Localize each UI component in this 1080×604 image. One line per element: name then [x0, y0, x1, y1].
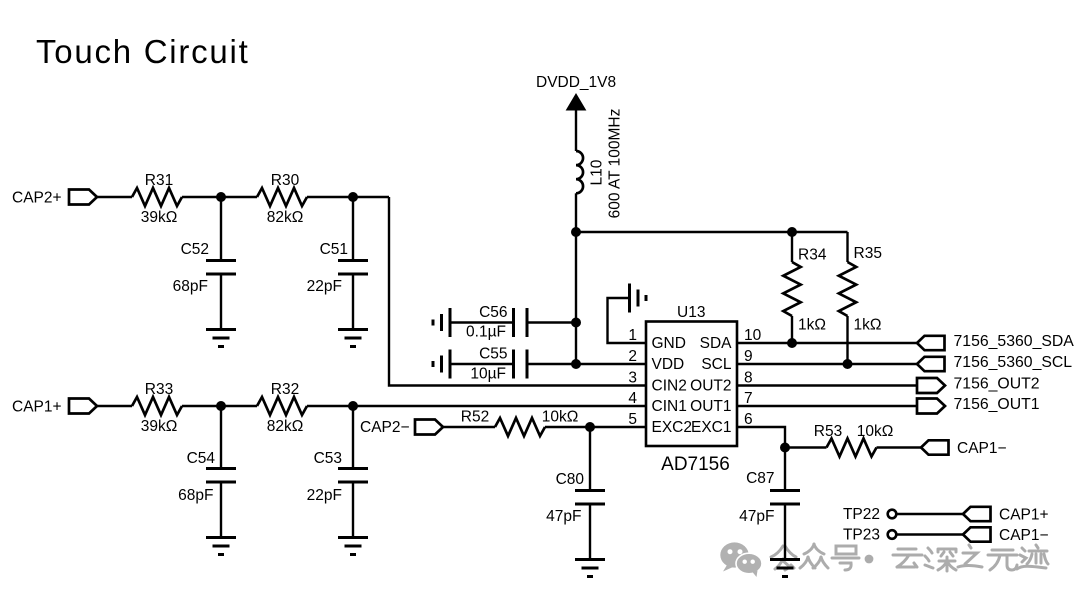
- resistor R52: [495, 418, 545, 436]
- power arrow symbol: [567, 94, 586, 110]
- wire R30 to bend: [307, 196, 389, 198]
- svg-text:CAP2+: CAP2+: [12, 190, 62, 207]
- svg-text:C87: C87: [746, 470, 774, 487]
- connector 7156_OUT2: [917, 378, 945, 393]
- svg-text:R53: R53: [814, 423, 842, 440]
- svg-text:EXC1: EXC1: [691, 419, 732, 436]
- connector CAP1+: [69, 399, 97, 414]
- svg-text:CAP1−: CAP1−: [999, 527, 1049, 544]
- capacitor C80: [575, 491, 605, 505]
- svg-text:R31: R31: [145, 172, 173, 189]
- wire SDA pin 10: [737, 342, 917, 344]
- svg-text:CAP2−: CAP2−: [360, 419, 410, 436]
- svg-text:R30: R30: [271, 172, 300, 189]
- svg-text:R35: R35: [854, 245, 882, 262]
- svg-text:1kΩ: 1kΩ: [798, 317, 826, 334]
- svg-text:22pF: 22pF: [307, 278, 342, 295]
- ground below C51: [338, 330, 368, 347]
- junction node L10/VDD rail: [571, 227, 581, 237]
- svg-text:Touch Circuit: Touch Circuit: [36, 33, 249, 70]
- svg-text:C80: C80: [556, 471, 585, 488]
- svg-text:L10: L10: [589, 159, 606, 185]
- svg-text:CAP1+: CAP1+: [999, 507, 1049, 524]
- svg-text:7156_OUT2: 7156_OUT2: [954, 376, 1040, 393]
- junction node R34/SDA: [787, 338, 797, 348]
- svg-text:CIN1: CIN1: [652, 398, 687, 415]
- wire C87 to ground: [784, 505, 786, 560]
- wire OUT2 pin 8: [737, 384, 917, 386]
- wire arrow to L10: [575, 109, 577, 151]
- svg-text:6: 6: [744, 411, 753, 428]
- svg-text:1kΩ: 1kΩ: [854, 317, 882, 334]
- svg-text:7156_OUT1: 7156_OUT1: [954, 396, 1040, 413]
- connector 7156_5360_SDA: [917, 336, 945, 350]
- op-amp U13 IC box AD7156: [646, 322, 737, 447]
- resistor R35: [846, 232, 848, 262]
- inductor L10: [576, 151, 583, 193]
- svg-text:C52: C52: [181, 241, 209, 258]
- wire VDD bus down to pin 2: [576, 232, 646, 364]
- svg-text:39kΩ: 39kΩ: [141, 418, 178, 435]
- svg-text:0.1µF: 0.1µF: [466, 324, 506, 341]
- ground for C56: [433, 308, 450, 337]
- wire junction to C51: [352, 197, 354, 260]
- svg-text:68pF: 68pF: [178, 487, 213, 504]
- connector CAP2-: [415, 420, 443, 435]
- junction node at R32/C53: [348, 401, 358, 411]
- svg-text:2: 2: [628, 348, 637, 365]
- svg-text:10µF: 10µF: [470, 366, 506, 383]
- junction node bus/C55/VDD pin: [571, 359, 581, 369]
- wire TP22 to CAP1+: [896, 513, 963, 515]
- wire R33 to R32: [182, 405, 257, 407]
- svg-text:7156_5360_SCL: 7156_5360_SCL: [954, 354, 1073, 371]
- svg-text:5: 5: [628, 411, 637, 428]
- wire C55 to bus: [527, 363, 576, 365]
- resistor R34: [791, 232, 793, 262]
- svg-text:7156_5360_SDA: 7156_5360_SDA: [954, 333, 1075, 350]
- wire L10 to VDD rail: [575, 193, 577, 232]
- svg-text:OUT1: OUT1: [690, 398, 731, 415]
- wire junction to C54: [220, 406, 222, 469]
- svg-text:SDA: SDA: [700, 335, 733, 352]
- connector CAP1+ at TP22: [963, 507, 991, 521]
- svg-text:4: 4: [628, 390, 637, 407]
- ground at pin 1: [608, 298, 647, 343]
- connector CAP1-: [921, 440, 949, 454]
- capacitor C53: [338, 469, 368, 483]
- svg-text:R32: R32: [271, 381, 299, 398]
- wire bend down to CIN2 pin 3: [389, 197, 646, 386]
- wire TP23 to CAP1-: [896, 533, 963, 535]
- resistor R30: [257, 188, 307, 206]
- svg-text:TP22: TP22: [843, 506, 880, 523]
- wire junction to C53: [352, 406, 354, 469]
- capacitor C87: [770, 491, 800, 505]
- wire C80 to ground: [589, 505, 591, 560]
- svg-text:7: 7: [744, 390, 753, 407]
- svg-text:10: 10: [744, 327, 762, 344]
- junction node at R30/C51: [348, 192, 358, 202]
- connector 7156_5360_SCL: [917, 357, 945, 371]
- svg-text:C55: C55: [479, 346, 507, 363]
- svg-text:AD7156: AD7156: [661, 454, 730, 475]
- connector CAP2+: [69, 190, 97, 205]
- junction node bus/C56: [571, 318, 581, 328]
- watermark wechat logo and text: [720, 542, 1048, 577]
- wire R53 to CAP1- connector: [877, 446, 922, 448]
- capacitor C56: [514, 308, 528, 337]
- resistor R31: [132, 188, 182, 206]
- capacitor C55: [514, 350, 528, 379]
- svg-text:SCL: SCL: [701, 356, 732, 373]
- wire junction to C87: [784, 448, 786, 492]
- junction node R35/SCL: [843, 359, 853, 369]
- svg-text:22pF: 22pF: [307, 487, 342, 504]
- svg-text:R52: R52: [461, 409, 489, 426]
- resistor R53: [827, 439, 877, 457]
- wire SCL pin 9: [737, 363, 917, 365]
- resistor R32: [257, 397, 307, 415]
- svg-text:C53: C53: [314, 450, 342, 467]
- wire OUT1 pin 7: [737, 405, 917, 407]
- wire R52 to EXC2 pin 5: [545, 426, 646, 428]
- svg-text:VDD: VDD: [652, 356, 685, 373]
- svg-text:TP23: TP23: [843, 527, 880, 544]
- capacitor C54: [206, 469, 236, 483]
- wire C51 to ground: [352, 275, 354, 330]
- ground below C53: [338, 538, 368, 555]
- svg-text:DVDD_1V8: DVDD_1V8: [536, 74, 616, 91]
- svg-text:8: 8: [744, 370, 753, 387]
- svg-text:U13: U13: [677, 304, 705, 321]
- connector 7156_OUT1: [917, 399, 945, 414]
- svg-text:CIN2: CIN2: [652, 378, 687, 395]
- junction node R52/C80: [585, 422, 595, 432]
- ground below C52: [206, 330, 236, 347]
- svg-text:EXC2: EXC2: [652, 419, 693, 436]
- svg-text:CAP1+: CAP1+: [12, 399, 62, 416]
- svg-text:R33: R33: [145, 381, 173, 398]
- svg-text:10kΩ: 10kΩ: [542, 409, 579, 426]
- svg-text:GND: GND: [652, 335, 686, 352]
- svg-text:47pF: 47pF: [739, 508, 774, 525]
- wire C53 to ground: [352, 483, 354, 538]
- wire junction to C80: [589, 427, 591, 491]
- svg-text:1: 1: [628, 327, 637, 344]
- svg-text:OUT2: OUT2: [690, 378, 731, 395]
- wire CAP2- to R52: [443, 426, 495, 428]
- connector CAP1- at TP23: [963, 527, 991, 541]
- capacitor C52: [206, 261, 236, 275]
- wire ground to C55: [450, 363, 513, 365]
- resistor R33: [132, 397, 182, 415]
- svg-text:C51: C51: [320, 241, 348, 258]
- wire VDD rail: [576, 231, 848, 233]
- svg-text:82kΩ: 82kΩ: [267, 209, 304, 226]
- wire C56 to bus: [527, 321, 576, 323]
- svg-text:3: 3: [628, 370, 637, 387]
- svg-text:C56: C56: [479, 304, 507, 321]
- wire CAP1+ to R33: [97, 405, 132, 407]
- ground below C54: [206, 538, 236, 555]
- junction node at R33/R32/C54: [216, 401, 226, 411]
- wire R31 to R30: [182, 196, 257, 198]
- wire C52 to ground: [220, 275, 222, 330]
- svg-text:82kΩ: 82kΩ: [267, 418, 304, 435]
- wire junction to R53: [785, 446, 827, 448]
- wire junction to C52: [220, 197, 222, 260]
- wire C54 to ground: [220, 483, 222, 538]
- svg-text:47pF: 47pF: [546, 508, 581, 525]
- wire CAP2+ to R31: [97, 196, 132, 198]
- junction node rail/R34: [787, 227, 797, 237]
- svg-text:CAP1−: CAP1−: [957, 440, 1007, 457]
- junction node pin6/R53/C87: [780, 443, 790, 453]
- ground for C55: [433, 350, 450, 379]
- junction node at R31/R30/C52: [216, 192, 226, 202]
- svg-text:C54: C54: [187, 450, 216, 467]
- ground below C87: [770, 560, 800, 577]
- wire ground to C56: [450, 321, 513, 323]
- ground below C80: [575, 560, 605, 577]
- svg-text:600 AT 100MHz: 600 AT 100MHz: [607, 109, 624, 219]
- capacitor C51: [338, 261, 368, 275]
- svg-text:9: 9: [744, 348, 753, 365]
- wire R32 to CIN1 pin 4: [307, 405, 646, 407]
- svg-text:R34: R34: [798, 247, 827, 264]
- svg-text:10kΩ: 10kΩ: [857, 423, 894, 440]
- wire EXC1 pin 6 down to R53: [737, 427, 785, 448]
- svg-text:68pF: 68pF: [173, 278, 208, 295]
- svg-text:39kΩ: 39kΩ: [141, 209, 178, 226]
